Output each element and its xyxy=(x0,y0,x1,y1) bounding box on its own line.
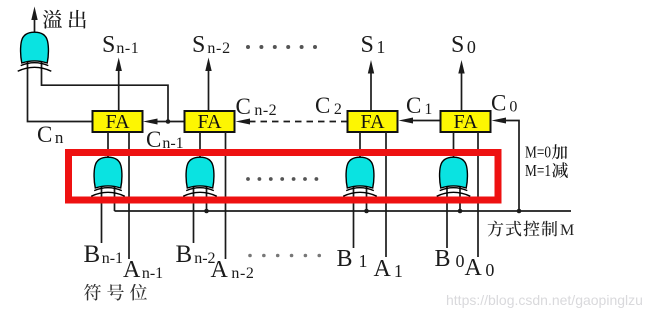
svg-text:M=0: M=0 xyxy=(525,143,551,162)
XOR gate G4 xyxy=(437,157,471,196)
wire: input A_0 to U4 xyxy=(477,132,479,257)
svg-text:Sn-1: Sn-1 xyxy=(102,32,139,58)
wire: input B_0 to G4 xyxy=(446,186,448,248)
wire: overflow output arrow xyxy=(31,7,37,32)
red highlight rectangle around XOR row xyxy=(69,153,499,201)
svg-text:A0: A0 xyxy=(465,255,495,281)
label B_1 xyxy=(337,246,368,272)
label 符号位 (sign bit) xyxy=(84,284,147,301)
svg-text:Cn-2: Cn-2 xyxy=(236,94,278,119)
label S_n-1 xyxy=(102,32,139,58)
svg-text:FA: FA xyxy=(197,111,222,133)
full adder U3 (FA) xyxy=(348,111,398,133)
XOR gate G3 xyxy=(343,157,377,196)
full adder U4 (FA) xyxy=(441,111,491,133)
svg-text:M=1: M=1 xyxy=(525,161,551,180)
svg-text:Cn-1: Cn-1 xyxy=(146,127,184,152)
label B_n-1 xyxy=(84,241,124,268)
label A_1 xyxy=(374,256,403,282)
wire: U3 B-input from G3 output xyxy=(359,132,361,158)
label C_n-1 xyxy=(146,127,184,152)
wire: sum output S_n-1 arrow from U1 xyxy=(116,58,122,112)
svg-text:An-1: An-1 xyxy=(123,257,163,283)
wire: U2 B-input from G2 output xyxy=(199,132,201,158)
svg-text:B0: B0 xyxy=(435,246,465,272)
svg-text:An-2: An-2 xyxy=(211,257,255,283)
svg-text:FA: FA xyxy=(105,111,130,133)
wire: input B_n-2 to G2 xyxy=(193,186,195,243)
wire: C_n from U1 carry-out to G0 left input xyxy=(28,62,93,122)
ellipsis between A_n-2 and B_1 xyxy=(248,254,321,258)
label B_n-2 xyxy=(176,241,216,268)
label C_n-2 xyxy=(236,94,278,119)
svg-text:Cn: Cn xyxy=(37,122,64,147)
svg-text:C0: C0 xyxy=(491,91,517,116)
svg-text:FA: FA xyxy=(453,111,478,133)
wire: mode line M feeding G1..G4 second inputs xyxy=(115,186,572,211)
wire: carry C_1 from U4 into U3 xyxy=(399,118,441,124)
ellipsis between S_n-2 and S_1 xyxy=(246,45,317,49)
svg-text:C2: C2 xyxy=(315,93,342,118)
label B_0 xyxy=(435,246,465,272)
svg-text:FA: FA xyxy=(360,111,385,133)
label M=1 subtract xyxy=(525,161,568,180)
wire: input A_n-2 to U2 xyxy=(225,132,227,259)
svg-text:M: M xyxy=(560,222,574,239)
label 方式控制M (mode control M) xyxy=(488,221,575,239)
wire: U4 B-input from G4 output xyxy=(453,132,455,158)
wire: dashed carry chain C_n-2 ... C_2 into U2 xyxy=(236,119,348,125)
wire: C_0 riser from mode line M into U4 xyxy=(492,118,520,212)
watermark xyxy=(446,292,643,308)
label M=0 add xyxy=(525,143,567,162)
wire: U1 B-input from G1 output xyxy=(107,132,109,158)
wire: sum output S_0 arrow from U4 xyxy=(458,60,464,111)
label A_n-1 xyxy=(123,257,163,283)
svg-text:Bn-2: Bn-2 xyxy=(176,241,216,268)
svg-text:Bn-1: Bn-1 xyxy=(84,241,124,268)
XOR gate G0 overflow detector xyxy=(18,32,52,71)
node: G4 input tap on M line xyxy=(458,209,463,214)
svg-text:S0: S0 xyxy=(451,32,476,58)
wire: input A_n-1 to U1 xyxy=(128,132,130,259)
wire: carry C_n-1 from U2 into U1 with junction node xyxy=(143,119,185,125)
label C_1 xyxy=(406,93,432,118)
svg-text:A1: A1 xyxy=(374,256,403,282)
XOR gate G1 xyxy=(91,157,125,196)
wire: sum output S_1 arrow from U3 xyxy=(368,60,374,111)
label S_1 xyxy=(361,32,386,58)
full adder U1 (FA) xyxy=(93,111,143,133)
wire: input B_1 to G3 xyxy=(353,186,355,248)
wire: input B_n-1 to G1 xyxy=(101,186,103,243)
svg-text:B1: B1 xyxy=(337,246,368,272)
label 溢出 (overflow) xyxy=(43,10,86,29)
node: G3 input tap on M line xyxy=(364,209,369,214)
node: G2 input tap on M line xyxy=(204,209,209,214)
label A_n-2 xyxy=(211,257,255,283)
label Cn xyxy=(37,122,64,147)
label S_n-2 xyxy=(192,32,231,58)
label C_2 xyxy=(315,93,342,118)
svg-text:https://blog.csdn.net/gaopingl: https://blog.csdn.net/gaopinglzu xyxy=(446,292,643,308)
svg-text:C1: C1 xyxy=(406,93,432,118)
full adder U2 (FA) xyxy=(185,111,235,133)
svg-text:Sn-2: Sn-2 xyxy=(192,32,231,58)
node: C_0 tap on M line xyxy=(517,209,522,214)
label S_0 xyxy=(451,32,476,58)
wire: C_n-1 tap to G0 right input xyxy=(42,62,169,122)
svg-text:S1: S1 xyxy=(361,32,386,58)
wire: input A_1 to U3 xyxy=(385,132,387,257)
label A_0 xyxy=(465,255,495,281)
label C_0 xyxy=(491,91,517,116)
ellipsis inside red box xyxy=(246,177,318,181)
wire: sum output S_n-2 arrow from U2 xyxy=(205,58,211,112)
XOR gate G2 xyxy=(183,157,217,196)
